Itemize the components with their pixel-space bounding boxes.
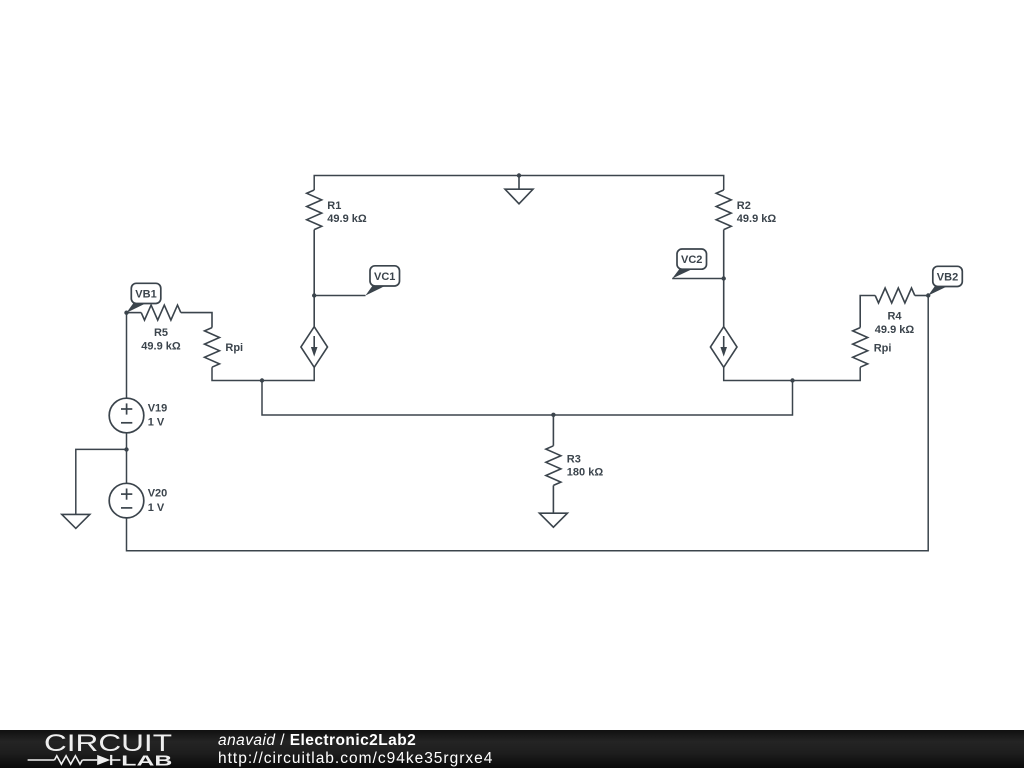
node VC2	[722, 276, 726, 280]
resistor R1	[307, 190, 322, 296]
node right junction	[790, 378, 794, 382]
svg-text:LAB: LAB	[121, 752, 172, 768]
svg-text:R5: R5	[154, 327, 168, 339]
wire left bus y380	[212, 367, 314, 380]
svg-text:Rpi: Rpi	[225, 342, 243, 354]
ground GND R3	[539, 513, 567, 527]
svg-text:VB1: VB1	[135, 289, 156, 301]
flag VC2	[672, 249, 706, 279]
wire right bus y380	[724, 367, 861, 380]
node VB2	[926, 293, 930, 297]
resistor R2	[716, 190, 731, 279]
svg-text:180 kΩ: 180 kΩ	[567, 467, 604, 479]
resistor R4	[860, 288, 928, 328]
svg-text:1 V: 1 V	[148, 417, 165, 429]
wire mid bus y415	[553, 381, 792, 416]
flag VC1	[366, 266, 400, 296]
wire VC1 stub	[314, 295, 365, 297]
wire VB1 to V19	[126, 313, 128, 399]
flag VB2	[928, 266, 962, 295]
wire V19 to V20	[126, 433, 128, 484]
current source I1 (left diamond)	[301, 296, 328, 368]
node left junction	[260, 378, 264, 382]
svg-text:Rpi: Rpi	[874, 343, 892, 355]
node mid sources	[124, 447, 128, 451]
svg-text:49.9 kΩ: 49.9 kΩ	[875, 324, 915, 336]
node top junction	[517, 173, 521, 177]
svg-text:49.9 kΩ: 49.9 kΩ	[737, 213, 777, 225]
svg-text:R4: R4	[887, 311, 902, 323]
wire bottom bus	[127, 296, 929, 551]
resistor Rpi right	[853, 328, 868, 368]
wire top bus	[314, 176, 724, 191]
logo resistor-diode	[28, 755, 121, 765]
node VC1	[312, 293, 316, 297]
ground GND left	[62, 514, 90, 528]
node R3 tap	[551, 413, 555, 417]
svg-text:VB2: VB2	[937, 272, 958, 284]
resistor R3	[546, 415, 561, 513]
svg-text:R1: R1	[327, 200, 341, 212]
ground GND top	[505, 176, 533, 204]
resistor Rpi left	[205, 328, 220, 368]
svg-text:49.9 kΩ: 49.9 kΩ	[141, 340, 181, 352]
flag VB1	[127, 283, 161, 312]
svg-text:VC1: VC1	[374, 271, 395, 283]
current source I2 (right diamond)	[710, 279, 737, 368]
svg-text:V20: V20	[148, 488, 168, 500]
voltage source V19	[109, 398, 144, 433]
svg-text:R3: R3	[567, 453, 581, 465]
node VB1	[124, 311, 128, 315]
svg-text:49.9 kΩ: 49.9 kΩ	[327, 213, 367, 225]
svg-text:R2: R2	[737, 200, 751, 212]
svg-text:V19: V19	[148, 403, 168, 415]
resistor R5	[127, 305, 213, 328]
wire VC2 stub	[672, 278, 724, 280]
voltage source V20	[109, 483, 144, 518]
svg-text:VC2: VC2	[681, 254, 702, 266]
wire left drop	[262, 381, 553, 416]
footer bar	[0, 730, 1024, 768]
wire to left ground	[76, 449, 127, 514]
svg-text:1 V: 1 V	[148, 502, 165, 514]
